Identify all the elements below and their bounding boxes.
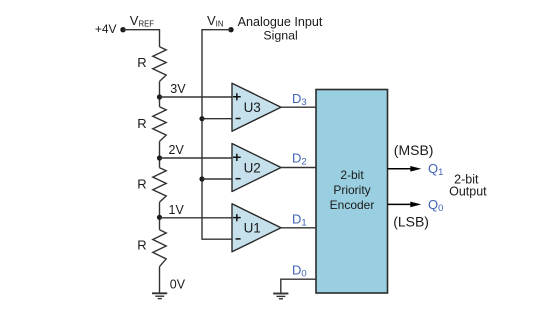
wire VIN vertical bus: [202, 30, 232, 240]
wire 2V to U2 plus: [160, 157, 233, 159]
wire D0 to ground: [281, 279, 316, 293]
svg-text:0V: 0V: [170, 278, 186, 292]
wire R3 to 1V node: [159, 202, 161, 230]
resistor R1: [153, 47, 166, 82]
svg-text:D3: D3: [292, 91, 307, 108]
wire R4 to ground: [159, 267, 161, 294]
svg-text:2V: 2V: [169, 143, 185, 157]
node 2V: [157, 155, 162, 160]
svg-text:R: R: [137, 116, 146, 131]
node +4V terminal: [120, 27, 125, 32]
wire R2 to 2V node: [159, 141, 161, 167]
svg-text:Analogue Input: Analogue Input: [238, 15, 323, 29]
svg-text:(MSB): (MSB): [394, 142, 434, 158]
wire U1 output D1: [281, 227, 316, 229]
svg-text:+4V: +4V: [95, 22, 117, 36]
op-amp U1: [232, 204, 281, 252]
svg-text:Q0: Q0: [428, 197, 443, 214]
node 1V: [157, 215, 162, 220]
svg-text:D0: D0: [292, 263, 307, 280]
svg-text:1V: 1V: [169, 203, 185, 217]
node 3V: [157, 94, 162, 99]
wire U2 output D2: [281, 167, 316, 169]
block 2-bit priority encoder: [316, 90, 388, 294]
svg-text:VIN: VIN: [207, 13, 223, 29]
svg-text:(LSB): (LSB): [393, 213, 429, 229]
wire U3 output D3: [281, 106, 316, 108]
svg-text:Encoder: Encoder: [330, 198, 375, 212]
svg-text:3V: 3V: [170, 82, 186, 96]
resistor R2: [153, 107, 166, 142]
svg-text:U1: U1: [244, 221, 261, 236]
svg-text:2-bit: 2-bit: [340, 168, 364, 182]
svg-text:R: R: [137, 238, 146, 253]
svg-text:U3: U3: [244, 100, 261, 115]
svg-text:R: R: [137, 55, 146, 70]
svg-text:D2: D2: [292, 151, 307, 168]
op-amp U3: [232, 83, 281, 131]
svg-text:Q1: Q1: [428, 161, 443, 178]
wire R1 to 3V node: [159, 81, 161, 106]
wire 3V to U3 plus: [160, 96, 233, 98]
svg-text:Output: Output: [449, 185, 487, 199]
node VIN terminal: [228, 27, 233, 32]
svg-text:R: R: [137, 177, 146, 192]
svg-text:Priority: Priority: [333, 183, 370, 197]
wire VREF to ladder: [123, 30, 160, 47]
wire Q1 output arrow: [388, 168, 413, 170]
wire to U3 minus: [202, 118, 232, 120]
svg-text:U2: U2: [244, 160, 261, 175]
wire to U2 minus: [202, 178, 232, 180]
svg-text:D1: D1: [292, 212, 307, 229]
resistor R4: [153, 230, 166, 267]
resistor R3: [153, 168, 166, 203]
op-amp U2: [232, 144, 281, 192]
node VIN to U2 minus: [199, 176, 204, 181]
svg-text:Signal: Signal: [263, 29, 297, 43]
svg-text:VREF: VREF: [130, 13, 155, 29]
wire Q0 output arrow: [388, 203, 413, 205]
ground (ladder 0V): [152, 293, 167, 298]
node VIN to U3 minus: [199, 116, 204, 121]
ground (D0): [273, 294, 288, 299]
wire 1V to U1 plus: [160, 217, 233, 219]
